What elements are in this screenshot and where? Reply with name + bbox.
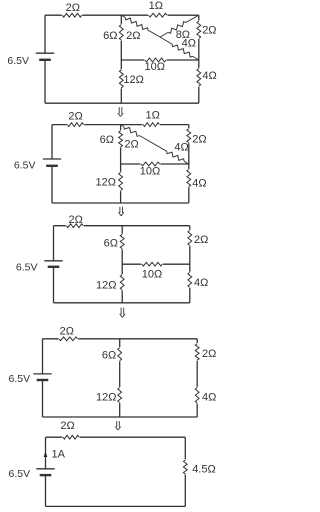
svg-text:6.5V: 6.5V [7,55,29,67]
svg-text:2Ω: 2Ω [202,24,216,36]
resistor 2-ohm right upper (circuit 3) [187,230,208,246]
label 6.5V (circuit 1) [7,55,29,67]
svg-text:12Ω: 12Ω [96,177,116,189]
svg-text:4Ω: 4Ω [202,391,216,403]
current arrow 1A (circuit 5) [44,449,66,461]
wire mid horizontal branch (circuit 1) [121,59,199,61]
svg-text:2Ω: 2Ω [194,234,208,246]
resistor 2-ohm top-left (circuit 1) [62,2,83,18]
svg-text:2Ω: 2Ω [66,2,80,14]
svg-text:6.5V: 6.5V [16,261,38,273]
circuit 2 outer wire loop [52,125,189,203]
resistor 2-ohm right upper (circuit 2) [186,128,206,145]
resistor 2-ohm 4-ohm series diagonal (circuit 2) [121,125,189,164]
resistor 6-ohm inner upper (circuit 2) [100,130,124,147]
resistor 2-ohm top (circuit 5) [60,420,79,440]
circuit 1 outer wire loop [45,15,199,103]
resistor 2-ohm right upper (circuit 4) [195,343,217,361]
resistor 12-ohm inner lower (circuit 2) [96,172,124,191]
svg-text:2Ω: 2Ω [60,326,74,338]
circuit 5 outer wire loop [46,437,186,506]
resistor 4.5-ohm right (circuit 5) [183,459,216,475]
svg-text:10Ω: 10Ω [140,166,160,178]
svg-text:10Ω: 10Ω [142,269,162,281]
svg-text:1Ω: 1Ω [149,0,163,12]
resistor 6-ohm inner upper (circuit 1) [103,24,124,42]
resistor 6-ohm inner upper (circuit 4) [102,347,122,362]
resistor 4-ohm right lower (circuit 3) [187,272,208,289]
resistor 4-ohm right lower (circuit 2) [186,169,206,190]
arrow step 1 to 2 [118,107,123,116]
resistor 12-ohm inner lower (circuit 4) [96,387,122,403]
resistor 1-ohm top-right (circuit 2) [143,109,161,127]
resistor 6-ohm inner upper (circuit 3) [104,234,125,250]
battery 6.5V (circuit 1) [36,53,54,60]
resistor 4-ohm diagonal (circuit 1) [160,37,199,60]
svg-text:4Ω: 4Ω [182,38,196,50]
svg-text:2Ω: 2Ω [69,214,83,226]
svg-text:4Ω: 4Ω [194,277,208,289]
battery 6.5V (circuit 3) [44,261,62,267]
svg-text:2Ω: 2Ω [68,110,82,122]
svg-text:6.5V: 6.5V [14,159,36,171]
resistor 12-ohm inner lower (circuit 1) [119,69,144,88]
svg-text:6Ω: 6Ω [100,134,114,146]
resistor 1-ohm top-right (circuit 1) [148,0,168,18]
wire inner vertical (circuit 4) [119,339,121,417]
battery 6.5V (circuit 2) [43,159,61,166]
resistor 2-ohm diagonal (circuit 1) [121,15,160,42]
wire inner vertical (circuit 3) [121,226,123,303]
svg-text:6Ω: 6Ω [102,350,116,362]
battery 6.5V (circuit 5) [36,469,54,475]
label 6.5V (circuit 5) [8,468,30,480]
label 6.5V (circuit 4) [8,373,30,385]
svg-text:2Ω: 2Ω [126,30,140,42]
battery 6.5V (circuit 4) [33,374,51,380]
arrow step 4 to 5 [115,421,120,430]
arrow step 2 to 3 [119,207,124,216]
svg-text:4Ω: 4Ω [174,141,188,153]
resistor 10-ohm mid (circuit 3) [141,262,162,281]
resistor 2-ohm top-left (circuit 2) [67,110,84,127]
svg-text:6Ω: 6Ω [104,237,118,249]
label 6.5V (circuit 3) [16,261,38,273]
svg-text:4.5Ω: 4.5Ω [192,464,216,476]
svg-text:6.5V: 6.5V [8,468,30,480]
label 6.5V (circuit 2) [14,159,36,171]
svg-text:2Ω: 2Ω [192,133,206,145]
svg-text:6Ω: 6Ω [103,30,117,42]
wire mid horizontal branch (circuit 2) [121,163,189,165]
resistor 2-ohm top (circuit 3) [66,214,84,228]
svg-text:12Ω: 12Ω [96,279,116,291]
circuit 3 outer wire loop [54,226,190,303]
wire mid horizontal branch (circuit 3) [122,263,190,265]
svg-text:2Ω: 2Ω [60,420,74,432]
resistor 10-ohm mid (circuit 1) [144,57,166,73]
svg-text:2Ω: 2Ω [202,348,216,360]
resistor 8-ohm diagonal (circuit 1) [160,15,199,41]
svg-text:4Ω: 4Ω [192,178,206,190]
svg-text:12Ω: 12Ω [96,391,116,403]
svg-text:6.5V: 6.5V [8,373,30,385]
resistor 2-ohm top (circuit 4) [58,326,78,342]
resistor 4-ohm right lower (circuit 4) [195,387,217,404]
wire inner vertical (circuit 1) [120,15,122,103]
resistor 12-ohm inner lower (circuit 3) [96,274,125,291]
resistor 10-ohm mid (circuit 2) [140,161,161,177]
svg-text:10Ω: 10Ω [144,61,164,73]
svg-text:12Ω: 12Ω [123,74,143,86]
svg-text:1A: 1A [52,449,66,461]
svg-text:4Ω: 4Ω [202,70,216,82]
resistor 4-ohm right lower (circuit 1) [196,68,217,87]
wire inner vertical (circuit 2) [120,125,122,203]
svg-text:1Ω: 1Ω [146,109,160,121]
svg-text:2Ω: 2Ω [124,139,138,151]
resistor 2-ohm right upper (circuit 1) [196,21,216,40]
circuit 4 outer wire loop [43,339,198,417]
arrow step 3 to 4 [120,308,125,318]
